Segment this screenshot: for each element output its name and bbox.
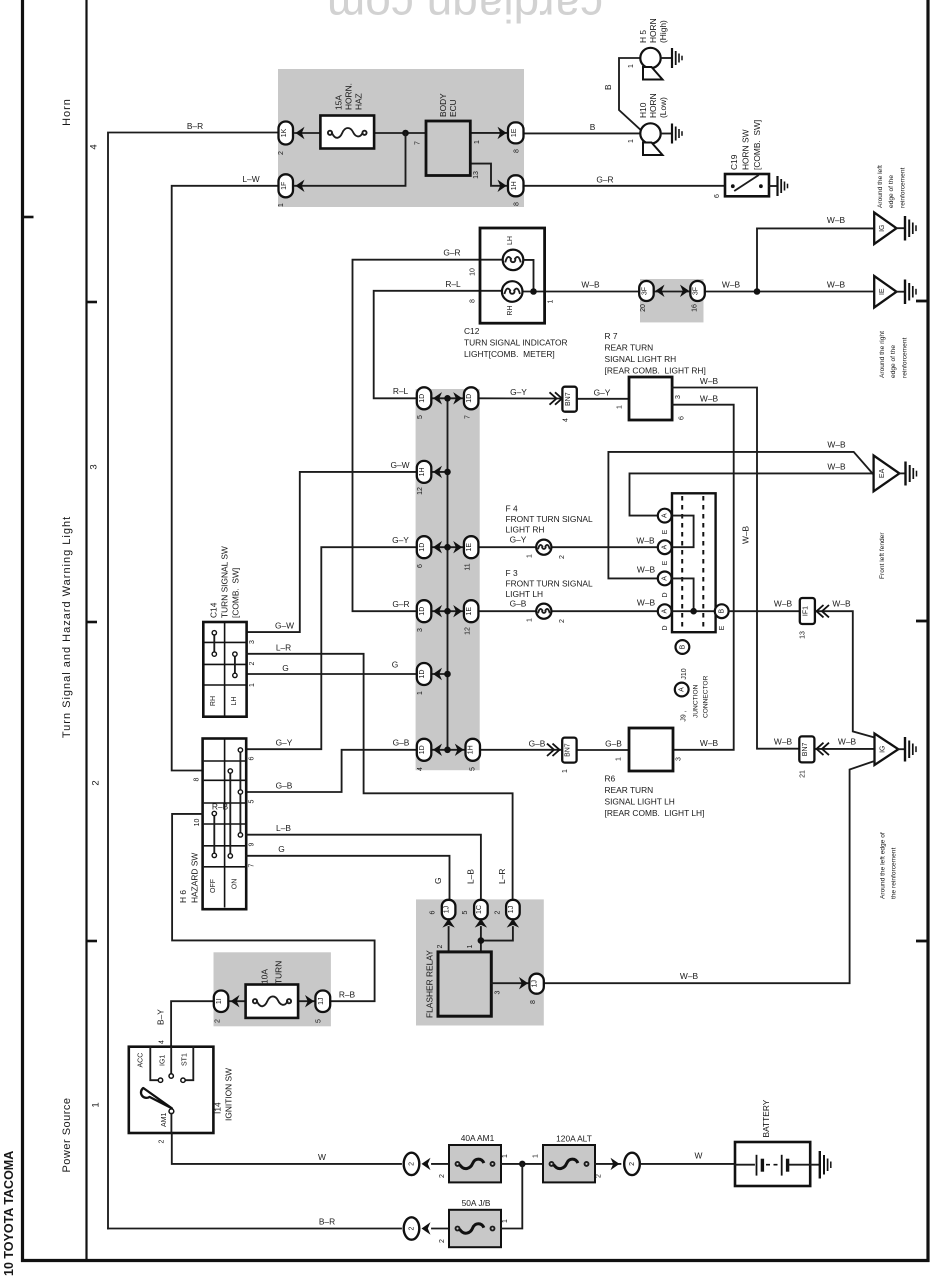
svg-text:1E: 1E	[466, 607, 473, 616]
svg-text:1K: 1K	[281, 128, 288, 137]
wire W-B flasher to IG ground	[544, 761, 875, 983]
svg-text:1: 1	[249, 683, 256, 687]
svg-text:7: 7	[465, 415, 472, 419]
svg-text:G–Y: G–Y	[594, 388, 611, 398]
svg-text:W–B: W–B	[827, 462, 846, 472]
svg-text:7: 7	[415, 141, 422, 145]
connector BN7 pin21	[799, 736, 814, 762]
svg-text:REAR TURN: REAR TURN	[605, 343, 654, 353]
svg-text:1D: 1D	[466, 394, 473, 403]
ruler tick c	[88, 940, 98, 943]
svg-text:5: 5	[470, 767, 477, 771]
rear turn signal light RH R7	[629, 377, 672, 420]
svg-text:D: D	[662, 592, 669, 597]
ground at H5	[672, 48, 682, 68]
gray panel: flasher relay	[416, 899, 544, 1025]
junction circle EA2	[658, 540, 672, 554]
svg-text:W–B: W–B	[827, 215, 846, 225]
svg-text:W–B: W–B	[838, 737, 857, 747]
svg-text:REAR TURN: REAR TURN	[605, 785, 654, 795]
junction dot bus row E	[444, 671, 451, 678]
junction circle J10 B	[676, 640, 690, 654]
wire ECU pin1 to 1E	[470, 132, 507, 134]
svg-text:1H: 1H	[419, 467, 426, 476]
svg-text:7: 7	[249, 863, 256, 867]
svg-text:21: 21	[800, 770, 807, 778]
svg-text:1D: 1D	[419, 670, 426, 679]
svg-text:3: 3	[89, 464, 100, 469]
svg-text:R–B: R–B	[212, 802, 229, 812]
connector 1F	[279, 174, 294, 197]
svg-text:40A AM1: 40A AM1	[461, 1133, 495, 1143]
connector 1H pin12	[417, 461, 432, 483]
junction connector box J9 J10	[672, 493, 716, 632]
ground triangle IG bottom	[875, 734, 899, 766]
connector 1I pin2	[214, 991, 229, 1013]
wire 120A to circle	[595, 1163, 620, 1165]
svg-text:IG: IG	[879, 225, 886, 232]
wire W-B 3F to IE ground	[704, 291, 875, 293]
connector 1D pin7	[464, 387, 479, 409]
svg-text:BN7: BN7	[802, 742, 809, 756]
junction circle DA3	[658, 572, 672, 586]
svg-text:IG1: IG1	[160, 1055, 167, 1066]
connector 1J pin5	[315, 991, 330, 1013]
wire 1I to fuse 10A	[229, 1000, 246, 1002]
connector 1C pin5	[474, 900, 488, 920]
svg-text:J10: J10	[681, 668, 688, 679]
svg-text:edge of the: edge of the	[890, 345, 897, 378]
svg-text:Around the left edge of: Around the left edge of	[880, 832, 887, 899]
svg-text:(High): (High)	[658, 20, 668, 43]
row F wires G-B	[246, 750, 417, 792]
svg-text:6: 6	[417, 564, 424, 568]
svg-text:[REAR COMB. LIGHT RH]: [REAR COMB. LIGHT RH]	[605, 366, 706, 376]
connector BN7 pin1	[562, 738, 576, 763]
gray panel: 3F connector	[640, 279, 704, 322]
ST1 contact	[186, 1047, 194, 1080]
wire node to 1F	[295, 133, 406, 186]
svg-text:W: W	[318, 1152, 326, 1162]
ground at C19	[778, 176, 788, 196]
svg-text:1: 1	[474, 140, 481, 144]
wire 40A to 120A with junction	[501, 1163, 543, 1165]
svg-text:TURN SIGNAL SW: TURN SIGNAL SW	[220, 546, 230, 618]
svg-text:Turn Signal and Hazard Warning: Turn Signal and Hazard Warning Light	[61, 516, 73, 738]
svg-text:1H: 1H	[511, 181, 518, 190]
wire W-B to IG ground top	[757, 228, 874, 292]
svg-text:W: W	[695, 1151, 703, 1161]
svg-text:10: 10	[470, 268, 477, 276]
svg-text:ST1: ST1	[182, 1053, 189, 1066]
wire B-Y ignition to 1I	[171, 1001, 214, 1046]
wire EB to IF1	[729, 610, 800, 612]
svg-text:TURN: TURN	[274, 961, 284, 984]
ACC contact	[150, 1047, 158, 1080]
svg-text:[COMB. SW]: [COMB. SW]	[752, 120, 762, 170]
svg-text:BODY: BODY	[438, 93, 448, 117]
junction dot bus row A	[444, 395, 451, 402]
svg-text:1: 1	[91, 1102, 102, 1107]
ground symbol at IG bottom	[905, 737, 916, 762]
ruler tick b	[88, 621, 98, 624]
svg-text:5: 5	[316, 1019, 323, 1023]
svg-text:1: 1	[502, 1219, 509, 1223]
junction circle J9 A	[675, 683, 689, 697]
fusible link 120A ALT	[543, 1145, 595, 1182]
svg-text:AM1: AM1	[161, 1113, 168, 1128]
svg-text:2: 2	[409, 1226, 416, 1230]
svg-text:Horn: Horn	[61, 98, 73, 126]
wire R-L C12 to 1D5	[374, 291, 502, 399]
svg-text:9: 9	[249, 842, 256, 846]
wire W-B C12 to 3F	[523, 291, 641, 293]
svg-text:G: G	[278, 844, 285, 854]
svg-text:A: A	[662, 576, 669, 581]
svg-text:W–B: W–B	[722, 280, 741, 290]
svg-text:1: 1	[617, 405, 624, 409]
wire relay pin3 to 1J8	[491, 982, 529, 984]
svg-text:3F: 3F	[642, 287, 649, 295]
svg-text:1E: 1E	[511, 128, 518, 137]
frame tick b	[916, 620, 927, 623]
connector 3F right	[690, 281, 705, 301]
svg-text:15A: 15A	[334, 95, 344, 110]
connector 1H pin5	[466, 739, 481, 761]
ground at battery	[820, 1151, 831, 1179]
H6 ON contact link long	[229, 771, 231, 856]
wire BN7 21 to IG ground	[815, 748, 875, 750]
wire B-R top run	[108, 133, 279, 1229]
connector 1D pin5	[417, 387, 432, 409]
connector bus line	[447, 398, 449, 750]
svg-text:W–B: W–B	[827, 440, 846, 450]
connector circle battery	[624, 1153, 640, 1175]
wire W to battery	[641, 1163, 735, 1165]
svg-text:4: 4	[563, 418, 570, 422]
svg-text:1D: 1D	[419, 745, 426, 754]
svg-text:8: 8	[514, 149, 521, 153]
svg-text:10 TOYOTA TACOMA: 10 TOYOTA TACOMA	[2, 1151, 16, 1276]
svg-text:E: E	[662, 560, 669, 565]
svg-text:W–B: W–B	[700, 394, 719, 404]
svg-text:OFF: OFF	[210, 879, 217, 893]
C14 LH contact link	[234, 654, 236, 675]
svg-text:1: 1	[616, 757, 623, 761]
wire F3 to DA circle	[551, 610, 658, 612]
svg-text:4: 4	[417, 767, 424, 771]
svg-text:C19: C19	[729, 154, 739, 170]
connector 1K	[279, 122, 294, 145]
svg-text:ECU: ECU	[448, 99, 458, 117]
svg-text:W–B: W–B	[774, 599, 793, 609]
connector 1J pin2	[506, 900, 520, 920]
svg-text:1F: 1F	[281, 182, 288, 190]
connector 3F left	[639, 281, 654, 301]
svg-text:3: 3	[495, 990, 502, 994]
flasher relay internal wires	[448, 927, 450, 952]
svg-text:4: 4	[159, 1040, 166, 1044]
svg-text:G–Y: G–Y	[392, 535, 409, 545]
svg-text:R–L: R–L	[445, 279, 461, 289]
svg-text:W–B: W–B	[637, 565, 656, 575]
IG1 contact	[170, 1047, 172, 1074]
ground triangle IG top	[874, 213, 896, 245]
svg-text:2: 2	[278, 151, 285, 155]
H6 ON contact link right	[239, 750, 241, 835]
svg-text:1: 1	[533, 1154, 540, 1158]
svg-text:IE: IE	[879, 288, 886, 295]
wire ECU pin13 to 1H	[470, 164, 507, 186]
svg-text:4: 4	[89, 144, 100, 149]
svg-text:IF1: IF1	[803, 606, 810, 616]
svg-text:EA: EA	[879, 468, 886, 478]
C14 RH contact link	[213, 633, 215, 654]
svg-text:6: 6	[430, 910, 437, 914]
connector 1J pin8	[529, 974, 543, 994]
wire circle to 50A fuse	[432, 1228, 449, 1230]
svg-text:1D: 1D	[419, 607, 426, 616]
svg-text:L–B: L–B	[466, 869, 476, 884]
svg-text:6: 6	[679, 416, 686, 420]
svg-text:5: 5	[249, 799, 256, 803]
svg-text:2: 2	[439, 1239, 446, 1243]
wire F4 to EA circle	[551, 546, 658, 548]
gray panel: junction block J/B horn-haz	[278, 69, 524, 207]
svg-text:2: 2	[437, 944, 444, 948]
connector 1H horn	[508, 175, 524, 196]
svg-text:1: 1	[628, 64, 635, 68]
svg-text:8: 8	[530, 1000, 537, 1004]
svg-text:SIGNAL LIGHT RH: SIGNAL LIGHT RH	[605, 354, 677, 364]
junction circle DA4	[658, 604, 672, 618]
svg-text:1J: 1J	[532, 980, 539, 987]
connector circle 50A	[404, 1217, 420, 1239]
wire between 3F pair	[652, 291, 692, 293]
junction dot in C12	[530, 288, 537, 295]
svg-text:RH: RH	[507, 305, 514, 315]
gray panel: 10A TURN fuse	[214, 952, 331, 1026]
svg-text:G–Y: G–Y	[510, 535, 527, 545]
svg-text:HORN: HORN	[648, 18, 658, 43]
svg-text:50A J/B: 50A J/B	[462, 1198, 491, 1208]
svg-text:2: 2	[215, 1019, 222, 1023]
connector BN7 pin4	[562, 387, 576, 412]
junction dot flasher node	[478, 937, 485, 944]
connector IF1	[800, 598, 815, 624]
svg-text:A: A	[679, 687, 686, 692]
junction dot bus row B	[444, 469, 451, 476]
ground symbol at IG top	[905, 216, 916, 241]
svg-text:A: A	[662, 609, 669, 614]
svg-text:2: 2	[596, 1174, 603, 1178]
svg-text:H10: H10	[638, 102, 648, 118]
ruler tick a	[88, 301, 98, 304]
svg-text:2: 2	[495, 910, 502, 914]
wire R7 pin3 W-B trunk to BN7 21	[672, 388, 799, 749]
svg-text:13: 13	[800, 631, 807, 639]
svg-text:B: B	[590, 122, 596, 132]
svg-text:L–W: L–W	[242, 174, 259, 184]
svg-text:1: 1	[502, 1154, 509, 1158]
svg-text:BATTERY: BATTERY	[761, 1099, 771, 1137]
svg-text:1D: 1D	[419, 394, 426, 403]
svg-text:FLASHER RELAY: FLASHER RELAY	[425, 950, 435, 1018]
horn switch C19	[725, 174, 769, 196]
svg-text:13: 13	[473, 171, 480, 179]
svg-text:JUNCTION: JUNCTION	[692, 684, 699, 718]
indicator lamp RH	[502, 281, 523, 302]
svg-text:2: 2	[91, 780, 102, 785]
svg-text:G–W: G–W	[275, 621, 294, 631]
battery cells	[735, 1164, 754, 1166]
svg-text:B: B	[603, 84, 613, 90]
wire B to horn low	[524, 132, 640, 134]
svg-text:G–B: G–B	[510, 599, 527, 609]
svg-text:W–B: W–B	[774, 737, 793, 747]
svg-text:1J: 1J	[508, 906, 515, 913]
front turn signal lamp F3	[536, 604, 551, 619]
wire L-R to flasher	[247, 654, 513, 900]
svg-text:R–L: R–L	[393, 386, 409, 396]
wire L-W	[172, 186, 279, 771]
flasher relay box	[438, 952, 491, 1016]
svg-text:E: E	[719, 625, 726, 630]
svg-text:B–Y: B–Y	[156, 1009, 166, 1025]
svg-text:1E: 1E	[466, 543, 473, 552]
svg-text:G–W: G–W	[390, 460, 409, 470]
junction dot horn fuse node	[402, 130, 409, 137]
junction circle EB	[715, 604, 729, 618]
wire EA riser from DA3	[608, 452, 872, 579]
junction dot bus row F	[444, 747, 451, 754]
wire IF1 to IG ground	[815, 611, 875, 737]
junction dot DA link	[690, 608, 697, 615]
wire G to flasher	[246, 856, 449, 900]
svg-text:CONNECTOR: CONNECTOR	[703, 675, 710, 718]
page border: landscape top border (thick left vertical)	[21, 0, 24, 1262]
wire EA riser from EA1	[630, 473, 874, 515]
wire 1K to fuse	[295, 132, 320, 134]
svg-text:16: 16	[692, 304, 699, 312]
svg-text:1: 1	[527, 618, 534, 622]
svg-text:8: 8	[194, 777, 201, 781]
wire G-R to horn switch	[524, 185, 725, 187]
svg-text:A: A	[662, 545, 669, 550]
svg-text:B: B	[719, 609, 726, 614]
svg-text:1I: 1I	[216, 998, 223, 1004]
frame tick c	[916, 940, 927, 943]
svg-text:1C: 1C	[476, 905, 483, 914]
svg-text:1J: 1J	[444, 906, 451, 913]
svg-text:3: 3	[676, 757, 683, 761]
wire R-B hazard to fuse	[172, 814, 375, 1001]
svg-text:BN7: BN7	[565, 392, 572, 406]
fusible link 50A J/B	[449, 1210, 501, 1247]
svg-text:B: B	[679, 644, 686, 649]
ground at H10	[672, 124, 682, 144]
svg-text:5: 5	[417, 415, 424, 419]
svg-text:2: 2	[559, 619, 566, 623]
svg-text:10: 10	[194, 819, 201, 827]
svg-text:W–B: W–B	[700, 376, 719, 386]
svg-text:3: 3	[675, 395, 682, 399]
svg-text:F 3: F 3	[506, 568, 518, 578]
svg-text:G–R: G–R	[392, 599, 409, 609]
horn H10 symbol	[640, 123, 660, 143]
svg-text:LH: LH	[231, 697, 238, 706]
svg-text:1: 1	[628, 139, 635, 143]
svg-text:1J: 1J	[318, 997, 325, 1004]
svg-text:1: 1	[467, 944, 474, 948]
junction internal link EA1-EA2	[671, 516, 694, 548]
junction dot bus row C	[444, 544, 451, 551]
svg-text:G–B: G–B	[605, 739, 622, 749]
svg-text:ACC: ACC	[138, 1053, 145, 1068]
svg-text:12: 12	[465, 627, 472, 635]
horn H5 symbol	[640, 48, 660, 68]
svg-text:W–B: W–B	[581, 280, 600, 290]
ignition switch I14 box	[129, 1047, 214, 1133]
ground symbol at EA	[906, 462, 917, 486]
svg-text:C12: C12	[464, 326, 480, 336]
svg-text:R–B: R–B	[339, 990, 356, 1000]
svg-text:8: 8	[470, 299, 477, 303]
svg-text:2: 2	[159, 1139, 166, 1143]
svg-text:G–R: G–R	[596, 175, 613, 185]
svg-text:1D: 1D	[419, 543, 426, 552]
svg-text:2: 2	[409, 1162, 416, 1166]
svg-text:B–R: B–R	[319, 1217, 335, 1227]
svg-text:cardiagn.com: cardiagn.com	[327, 0, 603, 32]
wire B-R bottom run	[108, 1228, 401, 1230]
svg-text:edge of the: edge of the	[888, 175, 895, 208]
svg-text:G–R: G–R	[443, 248, 460, 258]
svg-text:Front left fender: Front left fender	[879, 532, 886, 579]
row D wire G-R to 1D3 handled, inter wires	[431, 610, 464, 612]
frame tick a	[916, 300, 927, 303]
svg-text:LIGHT LH: LIGHT LH	[506, 589, 544, 599]
svg-text:W–B: W–B	[636, 536, 655, 546]
connector 1J pin6	[442, 900, 456, 920]
junction dot trunk IE	[754, 288, 761, 295]
svg-text:[COMB. SW]: [COMB. SW]	[231, 568, 241, 618]
connector 1E pin12	[464, 600, 479, 622]
page border: landscape bottom border (right vertical)	[926, 0, 929, 1262]
chevrons to BN7 pin4	[550, 392, 563, 404]
hazard switch H6 box	[203, 739, 247, 910]
ruler line	[85, 0, 87, 1260]
svg-text:LIGHT RH: LIGHT RH	[506, 525, 545, 535]
connector 1E horn	[508, 122, 524, 143]
svg-text:1: 1	[527, 554, 534, 558]
svg-text:6: 6	[714, 194, 721, 198]
svg-text:W–B: W–B	[832, 599, 851, 609]
svg-text:H 6: H 6	[178, 890, 188, 903]
connector 1D pin3	[417, 600, 432, 622]
svg-text:A: A	[662, 513, 669, 518]
svg-text:HORN SW: HORN SW	[741, 129, 751, 170]
svg-text:LH: LH	[507, 236, 514, 245]
wire 50A up to junction	[501, 1164, 522, 1229]
combination meter C12 box	[480, 228, 545, 323]
svg-text:IGNITION SW: IGNITION SW	[224, 1068, 234, 1121]
svg-text:reinforcement: reinforcement	[900, 168, 907, 208]
front turn signal lamp F4	[536, 540, 551, 555]
svg-text:12: 12	[417, 487, 424, 495]
rear turn signal light LH R6	[629, 728, 673, 771]
junction dot bus row D	[444, 608, 451, 615]
